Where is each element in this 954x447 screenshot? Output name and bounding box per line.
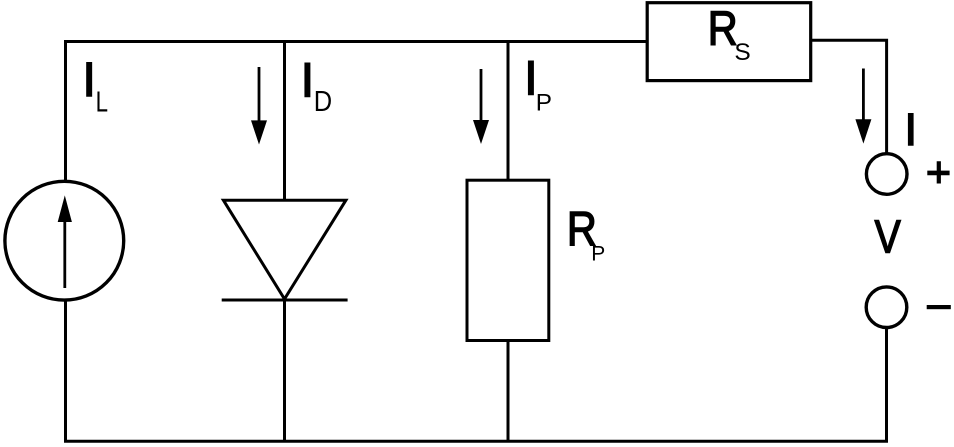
current arrow ID (251, 67, 267, 145)
current arrow I output (855, 69, 871, 144)
label minus sign (927, 305, 951, 309)
svg-text:P: P (591, 243, 605, 266)
wire RP branch upper (507, 40, 510, 181)
svg-text:L: L (96, 87, 108, 119)
wire RS output to + terminal (811, 40, 887, 153)
terminal + circle (866, 154, 907, 195)
diode D triangle (223, 200, 346, 299)
label ID (301, 55, 332, 118)
current arrow IP (473, 69, 489, 144)
svg-text:R: R (708, 3, 738, 56)
wire bottom rail with left and right risers (66, 300, 887, 441)
label RS (708, 3, 751, 66)
terminal - circle (866, 287, 907, 328)
current source IL circle (5, 181, 124, 300)
svg-text:I: I (301, 55, 314, 108)
svg-text:S: S (734, 39, 750, 66)
label plus sign (927, 161, 949, 183)
diode D cathode bar (222, 299, 348, 302)
wire diode branch upper (283, 40, 286, 200)
svg-text:P: P (536, 89, 552, 116)
resistor RP body (467, 180, 549, 340)
wire diode branch lower (283, 299, 286, 442)
svg-text:I: I (83, 54, 96, 107)
resistor RS body (647, 3, 811, 81)
current source IL arrow (58, 195, 72, 288)
svg-text:V: V (875, 210, 901, 262)
wire RP branch lower (507, 340, 510, 442)
label IL (83, 54, 109, 119)
svg-text:D: D (314, 86, 332, 118)
svg-text:I: I (905, 104, 918, 155)
label RP (567, 203, 605, 265)
label IP (524, 53, 552, 117)
wire top rail from left corner to RS box (66, 42, 648, 182)
